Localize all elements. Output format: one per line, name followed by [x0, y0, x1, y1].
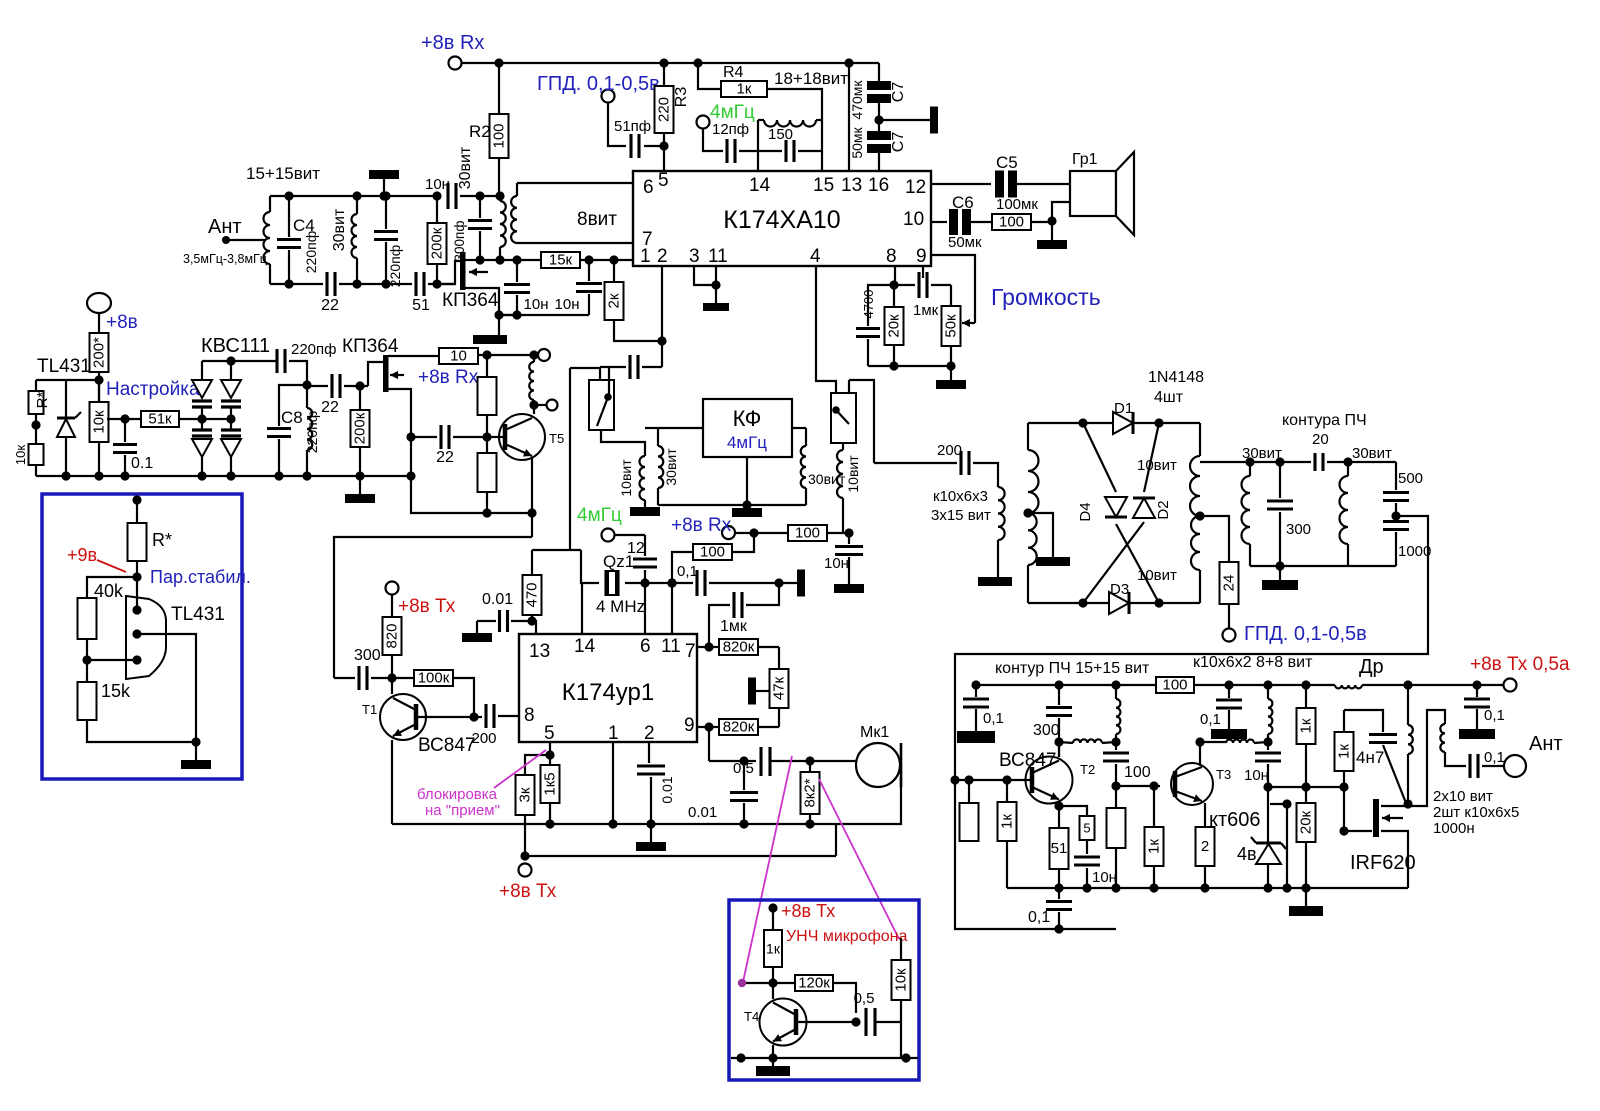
wire T3 base row [1116, 785, 1160, 787]
wire pin11 up [671, 583, 673, 634]
node coil 8вит bottom [512, 255, 521, 264]
capacitor 12пф [727, 139, 735, 163]
transistor КП364 drain [465, 259, 480, 261]
svg-text:12: 12 [627, 540, 645, 557]
resistor 20к [885, 285, 904, 366]
svg-text:R4: R4 [723, 64, 744, 81]
svg-text:820: 820 [384, 623, 401, 648]
speaker Гр1 [1070, 151, 1134, 235]
svg-text:12: 12 [905, 177, 926, 198]
node tankL left [1245, 457, 1254, 466]
wire pin8 bottom row [868, 365, 951, 367]
label Ант [208, 216, 242, 238]
svg-text:300: 300 [354, 647, 381, 664]
svg-text:30вит: 30вит [1242, 445, 1282, 462]
wire 51пф to R3 [644, 145, 664, 147]
wire T4 emitter [772, 1045, 774, 1058]
node mic base [768, 978, 777, 987]
inductor link L [1059, 739, 1116, 743]
wire КФ grounds [658, 504, 806, 506]
node pin8 [889, 280, 898, 289]
svg-text:10вит: 10вит [1137, 457, 1177, 474]
svg-text:11: 11 [661, 636, 681, 657]
svg-text:2: 2 [657, 246, 668, 267]
label 3,5мГц-3,8мГц [183, 252, 267, 266]
wire C7 mid [878, 98, 880, 131]
svg-text:0.01: 0.01 [688, 804, 717, 821]
inductor link R [1226, 740, 1268, 744]
capacitor C5 100мк [995, 153, 1038, 213]
resistor 10к pot [90, 380, 109, 476]
resistor 24 [1220, 562, 1239, 628]
svg-text:контур ПЧ 15+15 вит: контур ПЧ 15+15 вит [995, 660, 1150, 677]
svg-text:Ант: Ант [1529, 733, 1563, 755]
transistor КП364 bar [460, 252, 466, 290]
TL431 symbol box [126, 596, 166, 679]
wire bias row [411, 476, 532, 513]
wire pin2 down [661, 266, 663, 367]
wire pin1 down [612, 742, 614, 824]
wire antenna [226, 239, 266, 241]
svg-text:50мк: 50мк [948, 234, 982, 251]
blue box УНЧ [729, 900, 919, 1080]
pin 4 label [810, 246, 821, 267]
resistor blank txL [960, 780, 979, 841]
node +9в [132, 561, 141, 597]
inductor T5 collector coil [529, 355, 534, 414]
label 40k [94, 581, 124, 601]
transistor КП364-2 arrow [390, 371, 404, 379]
svg-text:50к: 50к [943, 314, 960, 338]
pin 2 label [657, 246, 668, 267]
inductor 10вит КФ [618, 456, 645, 500]
IC К174ур1 [519, 634, 697, 742]
wire pin7 [697, 646, 709, 648]
resistor R3 220 [655, 86, 691, 133]
ground stem top [383, 178, 385, 196]
wire 1к mic bottom [772, 967, 774, 999]
resistor 10к left [13, 444, 44, 476]
resistor 15к [541, 252, 580, 269]
resistor blank tx [1107, 786, 1126, 888]
resistor R4 1к [721, 64, 767, 98]
svg-text:10н: 10н [1244, 767, 1269, 784]
svg-text:+8в Тх: +8в Тх [499, 881, 557, 902]
wire 0.5 row [709, 760, 756, 762]
svg-text:К174ХА10: К174ХА10 [723, 206, 840, 234]
wire 100f2 left [672, 552, 693, 583]
svg-text:+8в Rx: +8в Rx [418, 367, 479, 388]
svg-text:47к: 47к [771, 676, 788, 700]
svg-text:Т2: Т2 [1080, 762, 1095, 777]
node on rail at R2 [494, 58, 503, 67]
node 20к top [1301, 782, 1310, 791]
svg-text:500: 500 [1398, 470, 1423, 487]
svg-text:1000н: 1000н [1433, 820, 1475, 837]
node 8+8 bottom [1263, 737, 1272, 746]
resistor blank1 [478, 355, 497, 415]
ring left tap [1023, 508, 1053, 557]
svg-text:200*: 200* [91, 337, 108, 368]
node pin9 ур1 [704, 722, 713, 731]
callout mic line1 [743, 756, 792, 982]
resistor 51 tx [1050, 828, 1069, 888]
antenna node [222, 236, 230, 244]
node trimmer bottom [475, 255, 484, 264]
label контур ПЧ 15+15 [995, 660, 1150, 677]
wire R2 top [498, 63, 500, 114]
resistor 10к mic [892, 960, 911, 1058]
wire 200 row [874, 462, 957, 464]
pin 10 label [903, 209, 924, 230]
svg-text:3: 3 [689, 246, 700, 267]
node C8 top [302, 380, 311, 389]
node T2 emitter [1054, 801, 1063, 810]
svg-text:10н: 10н [425, 176, 450, 193]
wire +8в to 200* [98, 313, 100, 333]
resistor 47к [770, 669, 789, 727]
capacitor C7 470мк [849, 80, 907, 120]
svg-text:100мк: 100мк [996, 196, 1038, 213]
svg-text:4в: 4в [1237, 844, 1257, 864]
svg-text:100к: 100к [418, 670, 450, 687]
svg-text:ВС847: ВС847 [418, 735, 475, 756]
TL431 anode dot [132, 629, 141, 638]
svg-text:51пф: 51пф [614, 118, 651, 135]
wire source to cap [499, 314, 517, 316]
inductor 8+8 v [1268, 685, 1272, 750]
node btm 1116 [1111, 883, 1120, 892]
svg-text:Т4: Т4 [744, 1009, 759, 1024]
capacitor 10н mixer [824, 547, 863, 585]
svg-text:0,1: 0,1 [677, 563, 698, 580]
wire tank right [798, 120, 822, 151]
node gate feed [1339, 782, 1348, 791]
svg-text:2: 2 [644, 723, 655, 744]
wire tank row [1200, 461, 1311, 463]
transistor КП364-2 gate lead [368, 362, 383, 386]
node rail 1к-1 [1301, 680, 1310, 689]
resistor 1к T3 [1145, 786, 1164, 888]
svg-text:+8в Rx: +8в Rx [421, 32, 484, 54]
node gnd box [191, 737, 200, 746]
wire cap to pin2 line [642, 366, 662, 368]
svg-text:D3: D3 [1110, 581, 1129, 598]
wire pin1 row [480, 259, 541, 261]
resistor R* upper [29, 380, 52, 414]
ground tank [1262, 566, 1298, 590]
wire Tx row [525, 855, 836, 857]
capacitor 4н7 [1356, 735, 1397, 768]
ground 0,1 txT [1459, 729, 1495, 739]
svg-text:2х10 вит: 2х10 вит [1433, 788, 1493, 805]
svg-text:30вит: 30вит [1352, 445, 1392, 462]
ground pin11 [703, 303, 729, 311]
resistor 2 [1196, 827, 1215, 888]
resistor 100 feed2 [693, 544, 732, 561]
wire x570 link [569, 368, 571, 550]
wire T1 base [416, 716, 474, 718]
wire pin9 ур1 [697, 726, 709, 728]
svg-text:50мк: 50мк [849, 126, 865, 158]
node tank1 bottom [284, 279, 293, 288]
node T5 base [482, 415, 491, 442]
pin 11 label [708, 246, 728, 267]
svg-text:КФ: КФ [733, 406, 762, 431]
wire 1мк left [709, 605, 730, 647]
node Rx feed [749, 528, 758, 537]
wire 40k branch [87, 577, 137, 598]
wire pin8 down [894, 266, 896, 285]
capacitor 300пф trimmer [452, 196, 492, 261]
svg-text:2к: 2к [606, 293, 623, 308]
capacitor 0,1 fb [1028, 888, 1072, 929]
transistor T5 [499, 414, 545, 460]
svg-text:1N4148: 1N4148 [1148, 369, 1204, 386]
ур1 pin 14 [574, 636, 596, 657]
wire R3 top [663, 63, 665, 86]
inductor Др [1335, 656, 1384, 688]
wire pin5 branch [549, 742, 551, 755]
capacitor 10н antenna [425, 176, 456, 209]
svg-text:R*: R* [152, 530, 172, 550]
ур1 pin 11 [661, 636, 681, 657]
inductor 30вит КФ right [801, 428, 846, 505]
node rail pin1 [608, 819, 617, 828]
node ring BR [1154, 598, 1163, 607]
svg-text:16: 16 [868, 175, 889, 196]
svg-text:1к: 1к [1336, 744, 1353, 759]
node T3 coll [1195, 737, 1204, 746]
label Настройка [106, 379, 200, 400]
wire 470 row [532, 549, 581, 551]
node ring TR [1154, 418, 1163, 427]
transistor T3 кт606 [1171, 763, 1213, 805]
label +9в [67, 545, 97, 565]
zener TL431 upper [57, 380, 81, 476]
node C7 mid [874, 115, 883, 124]
pin 7 label [642, 229, 653, 250]
wire pin6 [517, 182, 633, 184]
wire T2 base [950, 775, 1032, 784]
svg-text:0.1: 0.1 [131, 455, 153, 472]
resistor 820 [383, 594, 402, 678]
svg-text:УНЧ микрофона: УНЧ микрофона [786, 928, 907, 945]
wire C7 mid to ground [879, 119, 930, 121]
resistor 10 drain [439, 348, 478, 365]
svg-text:2: 2 [1201, 838, 1209, 855]
transistor КП364-2 drain [388, 355, 439, 357]
node btm 1268 [1263, 883, 1272, 892]
svg-text:24: 24 [1221, 575, 1238, 592]
wire filter bottom rail mid [339, 283, 412, 285]
node 20к bottom [889, 361, 898, 370]
node rail 0,1L [971, 680, 980, 689]
capacitor 12 [627, 535, 657, 583]
wire pin9 down [708, 727, 710, 761]
diode D1 [1113, 400, 1133, 434]
ground box [181, 742, 211, 769]
ground ур1 [636, 824, 666, 851]
wire switch cap left [600, 366, 626, 368]
svg-text:+9в: +9в [67, 545, 97, 565]
node btm 1287 [1282, 883, 1291, 892]
capacitor 10н tx2 [1244, 753, 1281, 787]
wire mic drop [835, 824, 837, 856]
resistor 51к [141, 411, 179, 428]
node 22-2 right [355, 381, 364, 390]
svg-text:4н7: 4н7 [1356, 748, 1384, 767]
pin 8 label [886, 246, 897, 267]
switch1 bottom lead [601, 430, 645, 456]
label УНЧ микрофона [786, 928, 907, 945]
svg-text:0,1: 0,1 [1200, 711, 1221, 728]
wire rail to C7 [878, 63, 880, 81]
svg-text:8вит: 8вит [577, 209, 617, 230]
node box top [132, 495, 141, 504]
pin 13 label [841, 175, 862, 196]
wire tank to pin14 [757, 151, 759, 171]
varicap D-a [192, 361, 212, 419]
capacitor 0,1 txL [963, 685, 1004, 731]
wire pin2 down ур1 [648, 742, 650, 763]
wire T3 emitter [1204, 803, 1206, 827]
terminal ГПД [537, 73, 660, 103]
svg-text:22: 22 [321, 297, 339, 314]
svg-text:12пф: 12пф [712, 121, 749, 138]
svg-text:0.01: 0.01 [659, 776, 675, 803]
wire 51 to gate node [428, 283, 455, 285]
MOSFET IRF620 arrow [1382, 814, 1403, 822]
node pin11 top [667, 578, 676, 587]
node btm 1059 [1054, 883, 1063, 892]
ring transformer left [1028, 423, 1039, 603]
svg-text:4мГц: 4мГц [577, 505, 622, 526]
svg-text:51к: 51к [148, 411, 172, 428]
capacitor 22 series [321, 272, 339, 314]
node tankL right [1275, 457, 1284, 466]
inductor 30вит КФ left [645, 428, 679, 505]
wire 100 to gnd node [1031, 221, 1052, 223]
ground 0,1 txL [957, 731, 995, 743]
svg-text:Настройка: Настройка [106, 379, 200, 400]
label 10вит up [1137, 457, 1177, 474]
wire pin4 switch top2 [849, 380, 874, 463]
node source rail [406, 471, 415, 480]
svg-text:10н: 10н [1092, 869, 1117, 886]
svg-text:К174ур1: К174ур1 [562, 679, 654, 706]
label Т3 [1216, 767, 1231, 782]
capacitor 0,1 txR [1200, 685, 1242, 729]
node 10вит2 bottom [844, 528, 853, 537]
svg-text:C6: C6 [952, 193, 974, 212]
transistor КП364 source [465, 288, 499, 315]
svg-text:100: 100 [1124, 764, 1151, 781]
IC К174ХА10 [633, 171, 931, 266]
wire crystal left [581, 550, 599, 583]
svg-text:820к: 820к [723, 719, 755, 736]
wire pin12 to C5 [931, 183, 991, 185]
wire pin7 [517, 242, 633, 244]
capacitor 22 второй [307, 374, 368, 416]
capacitor 0.01 низ [688, 761, 758, 824]
svg-text:1к: 1к [1298, 718, 1315, 733]
svg-text:22: 22 [436, 449, 454, 466]
wire +8в Rx rail [461, 62, 879, 64]
varicap D-b [221, 361, 241, 419]
ground filter top [369, 170, 399, 179]
capacitor 220пф tank2 [374, 196, 403, 287]
svg-text:14: 14 [574, 636, 596, 657]
wire C8 branch [279, 385, 307, 426]
wire 3к to Tx [524, 815, 526, 856]
wire tank left [758, 120, 782, 151]
svg-text:1к: 1к [1146, 839, 1163, 854]
node bridge mid right [226, 414, 235, 423]
node mic rail R [901, 1053, 910, 1062]
ground mic box [756, 1058, 790, 1076]
wire R4 branch [698, 63, 721, 89]
node on rail at R3 [659, 58, 668, 67]
resistor 20к [1297, 787, 1316, 888]
node T5 collector [529, 400, 538, 409]
node tap 500 [1391, 503, 1400, 521]
label 10вит dn [1137, 567, 1177, 584]
blue box стабилизатор [42, 494, 242, 779]
svg-text:15+15вит: 15+15вит [246, 164, 320, 183]
wire 15к to pin1 [580, 259, 633, 261]
pin 16 label [868, 175, 889, 196]
ур1 pin 1 [608, 723, 619, 744]
wire 0,1 right [709, 582, 779, 584]
wire filter top rail [270, 195, 437, 197]
ground КФ [732, 457, 762, 517]
label кт606 [1209, 809, 1261, 831]
ур1 pin 6 [640, 636, 651, 657]
inductor 30вит R [1340, 445, 1393, 566]
wire 4н7 диаг [1383, 745, 1406, 803]
resistor 15k [78, 681, 132, 720]
svg-text:C7: C7 [890, 82, 907, 103]
switch2 box [831, 393, 856, 443]
node 10н2 top [584, 255, 593, 264]
resistor 3к [516, 775, 535, 815]
ring transformer right [1190, 423, 1200, 603]
diag D2 [1083, 423, 1159, 603]
transistor T4 [760, 999, 807, 1046]
capacitor 10н tx1 [1074, 857, 1117, 888]
label ВС847 T2 [999, 750, 1056, 771]
ground 10вит [630, 500, 660, 516]
node zener top [1263, 782, 1272, 791]
node tank gnd [1275, 561, 1284, 570]
wire lever to pin2 [608, 367, 610, 394]
svg-text:5: 5 [658, 170, 669, 191]
svg-text:ГПД. 0,1-0,5в: ГПД. 0,1-0,5в [537, 73, 660, 95]
capacitor 200 mixer [937, 442, 969, 475]
wire bridge top [202, 360, 277, 362]
node T1 collector [387, 673, 396, 682]
wire 10вит bottom cap [848, 533, 850, 544]
wire 12пф to tank [739, 150, 758, 152]
transistor КП364 gate lead [437, 261, 461, 284]
wire C7 to pin16 [878, 148, 880, 171]
svg-text:+8в Тх 0,5а: +8в Тх 0,5а [1470, 654, 1570, 675]
label к10х6х2 [1193, 654, 1313, 671]
svg-text:30вит: 30вит [331, 208, 348, 251]
wire 1287 drop [1286, 804, 1288, 888]
transistor КП364-2 bar [383, 355, 389, 392]
